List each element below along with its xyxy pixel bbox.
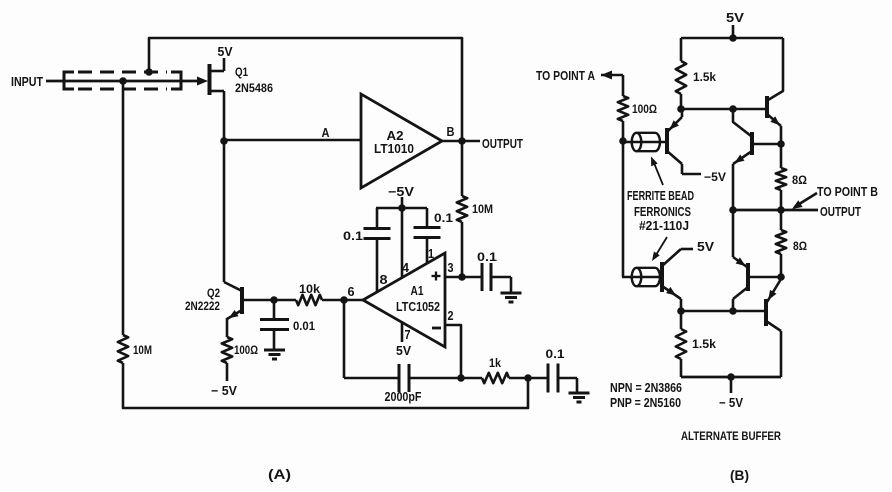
svg-text:2: 2 <box>448 309 454 323</box>
svg-text:0.01: 0.01 <box>293 319 315 333</box>
svg-text:PNP = 2N5160: PNP = 2N5160 <box>610 396 681 410</box>
svg-text:6: 6 <box>348 285 355 299</box>
svg-text:10M: 10M <box>133 343 152 357</box>
svg-text:10k: 10k <box>299 282 320 296</box>
svg-text:0.1: 0.1 <box>546 347 565 361</box>
svg-text:OUTPUT: OUTPUT <box>820 204 861 219</box>
svg-text:(A): (A) <box>268 466 291 482</box>
svg-text:2000pF: 2000pF <box>385 390 422 404</box>
svg-text:4: 4 <box>402 261 409 275</box>
svg-text:Q2: Q2 <box>207 286 220 300</box>
svg-text:−5V: −5V <box>388 185 415 199</box>
svg-text:− 5V: − 5V <box>719 396 744 410</box>
svg-text:2N5486: 2N5486 <box>235 81 273 95</box>
svg-text:FERRONICS: FERRONICS <box>634 205 691 219</box>
svg-text:8: 8 <box>380 273 388 287</box>
svg-text:B: B <box>447 125 455 139</box>
svg-text:LTC1052: LTC1052 <box>396 300 440 314</box>
svg-text:100Ω: 100Ω <box>234 343 258 357</box>
svg-text:5V: 5V <box>697 239 714 254</box>
svg-text:LT1010: LT1010 <box>374 142 414 156</box>
svg-text:10M: 10M <box>472 202 493 216</box>
svg-text:NPN = 2N3866: NPN = 2N3866 <box>610 381 682 395</box>
svg-text:8Ω: 8Ω <box>793 239 807 253</box>
svg-text:5V: 5V <box>396 344 412 358</box>
svg-text:(B): (B) <box>730 467 749 483</box>
svg-text:OUTPUT: OUTPUT <box>482 136 523 151</box>
svg-text:5V: 5V <box>726 10 744 25</box>
svg-text:Q1: Q1 <box>235 65 248 79</box>
svg-text:A1: A1 <box>411 284 424 298</box>
svg-text:0.1: 0.1 <box>434 211 453 225</box>
svg-text:1k: 1k <box>489 356 501 370</box>
svg-text:0.1: 0.1 <box>477 250 497 264</box>
svg-text:FERRITE BEAD: FERRITE BEAD <box>627 189 694 203</box>
svg-text:A2: A2 <box>387 129 404 143</box>
svg-text:1.5k: 1.5k <box>692 337 716 351</box>
svg-text:8Ω: 8Ω <box>792 173 807 187</box>
svg-text:1: 1 <box>428 247 434 261</box>
svg-text:ALTERNATE BUFFER: ALTERNATE BUFFER <box>681 429 781 443</box>
svg-text:2N2222: 2N2222 <box>185 299 220 313</box>
svg-text:3: 3 <box>448 261 454 275</box>
svg-text:INPUT: INPUT <box>11 74 43 89</box>
svg-text:TO POINT A: TO POINT A <box>536 69 595 83</box>
svg-text:100Ω: 100Ω <box>632 102 657 116</box>
svg-text:7: 7 <box>405 328 411 342</box>
svg-text:0.1: 0.1 <box>343 229 363 243</box>
svg-text:1.5k: 1.5k <box>693 70 716 84</box>
svg-text:−5V: −5V <box>704 170 726 184</box>
svg-text:− 5V: − 5V <box>211 384 238 398</box>
svg-text:5V: 5V <box>218 44 233 59</box>
svg-text:TO POINT B: TO POINT B <box>817 185 878 199</box>
svg-text:A: A <box>322 125 331 140</box>
svg-text:#21-110J: #21-110J <box>639 219 689 233</box>
